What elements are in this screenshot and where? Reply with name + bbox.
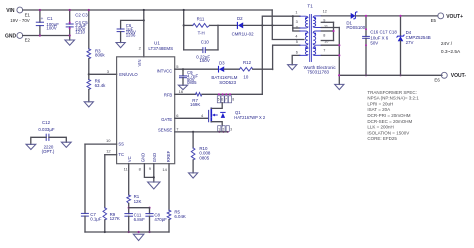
svg-text:27V: 27V [406,40,414,45]
resistor R9 [103,155,120,233]
body diode [221,111,225,113]
svg-text:T-H: T-H [198,30,205,35]
svg-text:50V: 50V [370,41,378,46]
svg-text:1: 1 [295,10,297,14]
diode D1 PDS5100 [321,12,437,30]
svg-text:16: 16 [179,89,184,94]
svg-text:127K: 127K [110,216,120,221]
svg-text:INTVCC: INTVCC [157,68,173,73]
svg-text:VIN: VIN [6,8,15,14]
terminal E6 VOUT- [434,72,466,82]
svg-text:6: 6 [176,113,179,118]
svg-text:5: 5 [218,98,220,102]
capacitor C12 [31,120,67,154]
wire drain bus [261,93,263,95]
svg-text:DCR-SEC = 20mOHM: DCR-SEC = 20mOHM [367,119,412,124]
svg-text:1210: 1210 [75,30,85,35]
svg-text:6: 6 [221,98,223,102]
diode D3 BAT41KFILM [211,60,239,84]
svg-text:DCR-PRI = 20mOHM: DCR-PRI = 20mOHM [367,113,410,118]
svg-text:TC: TC [118,152,124,157]
svg-text:750311783: 750311783 [307,69,329,74]
wire VOUT- rail [338,74,442,76]
winding W2 left [300,31,308,45]
svg-text:GND: GND [5,33,17,39]
wire bus to transformer pins 3 2 [293,16,300,31]
svg-text:CORE: EFD25: CORE: EFD25 [367,136,397,141]
svg-text:NPSA (NP:NS:NA)= 3:2:1: NPSA (NP:NS:NA)= 3:2:1 [367,96,419,101]
svg-text:LT3748EMS: LT3748EMS [148,46,173,51]
resistor R10 [191,132,211,173]
wire switch node down to drain [261,25,263,94]
ground below C6 [116,43,125,48]
wire secondary parallel bus B [321,28,340,76]
svg-text:0.1µF: 0.1µF [90,217,102,222]
svg-text:(OPT.): (OPT.) [42,149,55,154]
winding W2 right [313,31,321,45]
resistor R12 [239,60,272,79]
drain lead [211,103,222,109]
svg-text:ISOLATION = 1500V: ISOLATION = 1500V [367,130,409,135]
capacitor C6 [117,19,145,42]
svg-text:5: 5 [296,40,298,44]
wire VIN top rail [23,9,273,11]
svg-text:Q1: Q1 [235,110,241,115]
svg-text:HAT2167WP X 2: HAT2167WP X 2 [234,115,266,120]
svg-text:3: 3 [230,127,232,131]
wire VIN rail to bus [271,10,273,25]
transistor Q1 HAT2167WP [175,93,266,133]
node transformer spec text [367,90,419,141]
winding W3 right [313,46,321,55]
svg-text:0805: 0805 [199,156,209,161]
svg-text:T1: T1 [307,4,313,9]
svg-text:SENSE: SENSE [158,127,172,132]
wire bottom rail [85,231,169,233]
ground transformer pin 6 [288,65,297,70]
svg-text:6.8nF: 6.8nF [134,217,146,222]
svg-text:6.04K: 6.04K [174,214,186,219]
resistor R5 [162,164,186,232]
wire pin 6 to ground [292,55,300,64]
svg-text:10: 10 [243,74,248,79]
svg-text:806k: 806k [95,53,105,58]
svg-text:7: 7 [176,126,179,131]
resistor R7 [190,93,262,108]
svg-text:GND: GND [152,153,157,162]
wire TC pin 12 [105,149,117,155]
svg-text:0.3~2.5A: 0.3~2.5A [441,49,461,55]
svg-text:8: 8 [232,98,234,102]
svg-text:6: 6 [296,50,298,54]
svg-text:U1: U1 [154,41,160,46]
wire secondary parallel bus A [321,22,334,40]
svg-text:GND: GND [141,153,146,162]
ground below R6 [84,102,93,107]
wire SENSE pin 7 [175,126,228,133]
node output rating label [441,41,461,55]
winding W1 right [313,16,321,28]
diode D2 CMR1U-02 [218,16,293,36]
svg-text:SS: SS [118,142,124,147]
svg-text:C10: C10 [201,40,210,45]
wire INTVCC pin 5 [175,64,219,69]
svg-text:63.4k: 63.4k [95,83,107,88]
svg-text:4: 4 [295,35,297,39]
svg-text:169K: 169K [190,102,200,107]
svg-text:TRANSFORMER SPEC:: TRANSFORMER SPEC: [367,90,417,95]
source pin boxes 1 2 3 [218,126,221,132]
svg-text:7: 7 [323,49,325,53]
svg-text:12: 12 [106,149,111,154]
svg-text:RFB: RFB [164,92,173,97]
winding W1 left [300,16,308,28]
terminal E5 VOUT+ [431,13,463,23]
svg-text:E2: E2 [25,37,31,42]
drain pin boxes 5 6 7 8 [217,96,220,103]
ground below C9 [178,85,187,89]
svg-text:10: 10 [106,138,111,143]
svg-text:R12: R12 [243,60,252,65]
svg-text:R11: R11 [197,16,205,21]
gate bar [208,110,210,121]
svg-text:11: 11 [124,166,129,171]
svg-text:LPRI = 20uH: LPRI = 20uH [367,101,393,106]
svg-text:0.033µF: 0.033µF [38,127,55,132]
ground below IC [148,182,160,189]
svg-text:8: 8 [323,34,325,38]
svg-text:C16 C17 C18: C16 C17 C18 [370,29,397,34]
capacitor C11 [125,207,151,234]
svg-text:D3: D3 [219,60,225,65]
svg-text:7: 7 [225,98,227,102]
capacitor C7 [81,144,101,232]
wire W1 bottom lead [293,27,300,29]
channel segments [210,108,212,111]
svg-text:150V: 150V [200,58,210,63]
svg-text:0805: 0805 [187,80,197,85]
svg-text:9: 9 [149,166,152,171]
zener D4 CMPZ5254B [397,15,431,77]
transformer T1 [295,4,336,75]
wire bus to pin 4 [272,25,304,39]
svg-text:+: + [41,16,44,21]
svg-text:D4: D4 [406,30,412,35]
wire SS pin 10 [85,138,117,144]
svg-text:ISAT = 20A: ISAT = 20A [367,107,390,112]
svg-text:3: 3 [296,20,298,24]
resistor R11 snubber [183,9,218,50]
svg-text:4: 4 [201,113,204,118]
wire pin 5 to bias diode [273,45,300,69]
arrow [214,114,218,116]
terminal E1 VIN [6,7,30,23]
svg-text:LLK = 200nH: LLK = 200nH [367,125,393,130]
capacitor C16 C17 C18 [363,15,398,77]
svg-text:2: 2 [296,25,298,29]
wire IC GND pins [139,164,155,182]
svg-text:19V - 70V: 19V - 70V [10,18,30,23]
ground below C2-C5 [65,40,75,45]
capacitor C1 [36,9,59,37]
resistor R6 [87,59,106,102]
svg-text:100V: 100V [46,25,56,30]
op-amp U1 LT3748EMS box [117,41,175,164]
wire VIN pin of U1 [139,9,145,57]
svg-text:C1: C1 [47,16,53,21]
ground left of C12 [26,144,36,149]
resistor R3 [87,9,105,59]
svg-text:C2 C3: C2 C3 [75,13,88,18]
svg-text:24V /: 24V / [441,41,453,47]
svg-text:1: 1 [218,127,220,131]
svg-text:RREF: RREF [166,150,171,162]
gate lead [175,117,209,119]
svg-text:VC: VC [127,156,132,162]
svg-text:CMR1U-02: CMR1U-02 [232,31,255,36]
svg-text:C12: C12 [42,120,51,125]
capacitor C8 [129,208,167,233]
wire switch node to pin 1 [262,15,300,25]
ground bottom rail [133,234,144,240]
svg-text:1206: 1206 [126,33,136,38]
wire secondary ground drop [338,75,340,84]
ground right of C12 [61,142,71,147]
svg-text:E6: E6 [434,78,440,83]
resistor R1 [124,164,142,214]
svg-text:SOD523: SOD523 [219,80,236,85]
source lead [211,122,222,126]
capacitor C10 snubber [184,25,218,63]
svg-text:12: 12 [323,10,327,14]
svg-text:12K: 12K [134,199,142,204]
svg-text:2: 2 [139,45,142,50]
wire RFB pin 16 [175,89,196,95]
svg-text:E5: E5 [431,18,437,23]
svg-text:EN/UVLO: EN/UVLO [119,72,138,77]
svg-text:3: 3 [107,69,110,74]
svg-text:470pF: 470pF [154,217,167,222]
svg-text:VOUT+: VOUT+ [446,14,463,20]
wire GND rail [23,35,70,37]
svg-text:8: 8 [139,166,142,171]
svg-text:GATE: GATE [161,117,172,122]
terminal E2 GND [5,33,31,43]
svg-text:2: 2 [222,127,224,131]
wire EN/UVLO pin 3 [89,69,117,75]
capacitor C9 [180,68,199,85]
svg-text:14: 14 [162,167,167,172]
svg-text:VOUT-: VOUT- [451,73,467,79]
core [309,15,311,62]
svg-text:5: 5 [176,64,179,69]
svg-text:E1: E1 [25,13,31,18]
svg-text:VIN: VIN [137,60,142,67]
svg-text:PDS5100: PDS5100 [346,25,365,30]
svg-text:D2: D2 [237,16,243,21]
ground secondary [335,84,344,89]
capacitor C2 C3 C4 C5 [66,9,88,40]
ground below R10 [189,173,198,178]
winding W3 left [300,46,308,55]
